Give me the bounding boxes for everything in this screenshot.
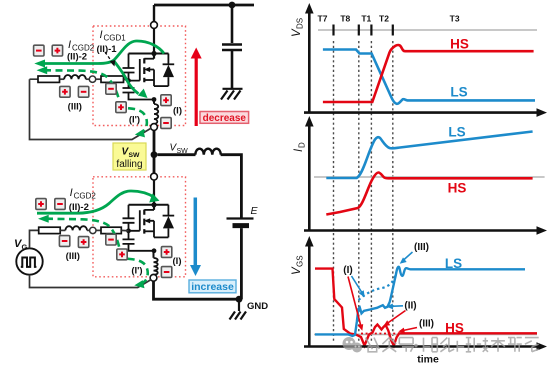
svg-text:SW: SW <box>177 148 189 155</box>
dotted box around low-side switch <box>93 177 186 277</box>
source VG squarewave glyph <box>21 258 37 267</box>
svg-text:GS: GS <box>296 255 305 267</box>
node LS gate mid (open) <box>90 227 96 233</box>
svg-text:CGD1: CGD1 <box>104 34 127 43</box>
polarity box minus LS I <box>161 267 171 278</box>
callout VSW falling (yellow) <box>113 143 146 170</box>
svg-text:(I): (I) <box>173 106 182 117</box>
current path ICGD2 (II)-2 solid green LS <box>37 191 155 213</box>
callout decrease <box>200 112 249 124</box>
capacitor CGD1 branch wire <box>128 54 130 68</box>
annotation (I) red arrow <box>348 277 361 327</box>
current path dashed green HS loop <box>44 70 147 133</box>
chart3 curve HS red <box>315 269 537 346</box>
diode D1 wires <box>167 54 169 87</box>
transistor Q2 channel <box>143 210 145 234</box>
inductor Lg2 <box>65 226 87 230</box>
svg-text:(II): (II) <box>404 301 416 312</box>
wire CGS1 return <box>129 93 155 100</box>
callout increase <box>189 280 236 293</box>
transistor Q1 source lead <box>144 79 154 81</box>
svg-text:(I'): (I') <box>129 115 140 126</box>
chart2 x axis <box>304 229 539 232</box>
svg-text:(II)-2: (II)-2 <box>67 52 87 63</box>
chart1 curve LS blue <box>323 50 535 104</box>
svg-text:T8: T8 <box>340 14 350 24</box>
diode D1 triangle <box>163 65 174 77</box>
capacitor CGS1 <box>123 88 135 93</box>
polarity box plus HS gate <box>116 102 126 113</box>
wire HS gate loop left <box>30 79 152 139</box>
capacitor DC-link wire lower <box>231 51 234 88</box>
wire rail below Q2 <box>153 251 155 258</box>
svg-text:(II)-2: (II)-2 <box>69 202 89 213</box>
transistor Q2 body arrow <box>144 218 150 223</box>
node Q1 drain junction <box>151 51 156 56</box>
inductor Ls2 (LS source parasitic) <box>154 258 158 275</box>
diode D2 cathode bar <box>163 215 175 217</box>
ground (main) <box>230 299 247 319</box>
svg-text:(II)-1: (II)-1 <box>97 44 118 55</box>
chart1 tick marks <box>334 25 393 36</box>
timing dashed gridlines T boundaries <box>333 41 335 343</box>
polarity box plus HS top <box>52 45 62 56</box>
svg-text:G: G <box>22 243 28 252</box>
polarity box minus HS top <box>34 45 44 56</box>
svg-text:I: I <box>100 29 103 41</box>
current arrowhead into source <box>138 89 148 98</box>
transistor Q1 gate bar <box>129 59 140 81</box>
svg-text:(III): (III) <box>419 319 434 330</box>
wire <box>60 229 65 231</box>
capacitor CGD2 <box>123 218 135 223</box>
current arrow (II)-2 HS solid head <box>34 60 45 68</box>
chart2 ID reference gray line <box>314 176 545 178</box>
leader dashed to ICGD1 <box>105 52 112 62</box>
wire <box>60 78 65 80</box>
svg-text:(I): (I) <box>343 265 352 276</box>
wire rail to LS top bar <box>153 180 155 210</box>
battery E plate short <box>233 223 250 228</box>
source VG <box>16 248 42 274</box>
wire HS drain rail <box>153 5 155 22</box>
MOSFET Q2 (low side) top bar <box>129 204 169 206</box>
wire load to battery <box>221 155 242 218</box>
transistor Q1 channel <box>143 58 145 82</box>
diode D1 cathode bar <box>163 63 175 65</box>
node HS gate mid (open) <box>89 76 95 82</box>
wire rail below Q1 <box>153 100 155 104</box>
svg-text:DS: DS <box>296 18 305 29</box>
chart1 x axis <box>304 111 539 114</box>
svg-text:E: E <box>251 205 259 217</box>
polarity box minus HS III <box>78 86 88 97</box>
resistor Rg1b <box>101 76 124 82</box>
wire to Q2 gate <box>121 229 128 231</box>
annotation (II) blue arrow <box>391 305 403 308</box>
current arrow dashed LS left head <box>38 215 49 223</box>
wire battery to gnd bus <box>240 228 243 299</box>
svg-text:HS: HS <box>445 321 464 336</box>
current arrow dashed HS end head <box>135 129 145 137</box>
svg-text:falling: falling <box>116 159 142 170</box>
svg-text:decrease: decrease <box>203 113 247 124</box>
chart2 curve LS blue <box>326 132 532 179</box>
svg-text:GND: GND <box>247 301 268 312</box>
polarity box minus LS III <box>59 236 69 247</box>
wire ground bus <box>154 281 240 299</box>
diode D2 wires <box>167 205 169 238</box>
svg-text:increase: increase <box>191 281 234 293</box>
node LS drain (open) <box>151 173 158 180</box>
polarity box plus LS III <box>78 237 88 248</box>
svg-text:I: I <box>70 187 73 199</box>
chart3 y axis <box>308 244 311 347</box>
label VDS <box>291 18 305 37</box>
watermark logo <box>343 337 363 353</box>
annotation (III) top blue arrow <box>403 252 413 261</box>
watermark text (vector glyphs) <box>366 338 539 352</box>
transistor Q2 source lead <box>144 230 154 232</box>
polarity box minus HS gate <box>106 83 116 94</box>
dotted box around high-side switch <box>93 26 186 126</box>
polarity box minus LS gate <box>106 234 116 245</box>
chart1 VDS reference gray line <box>318 29 537 31</box>
polarity box plus HS I <box>161 95 171 106</box>
wire to Q1 gate <box>124 79 129 80</box>
inductor load <box>195 149 221 155</box>
chart3 curve LS blue <box>315 267 525 336</box>
diode D2 triangle <box>163 216 174 228</box>
svg-text:LS: LS <box>448 125 465 140</box>
svg-text:I: I <box>68 39 71 51</box>
current branch to CGS1 solid green <box>114 61 139 94</box>
arrow increase (blue down) <box>194 198 198 267</box>
transistor Q2 gate bar <box>129 210 140 231</box>
current arrow dashed HS left head <box>37 66 48 74</box>
transistor Q1 body arrow <box>144 67 150 72</box>
chart2 curve HS red <box>326 172 532 214</box>
svg-text:(I): (I) <box>173 256 182 267</box>
node Q1 gate <box>126 78 131 83</box>
current path ICGD1 (II)-1 solid green HS <box>42 41 164 64</box>
chart1 y axis <box>308 11 311 113</box>
wire rail to HS top bar <box>153 28 155 58</box>
svg-text:time: time <box>417 354 439 366</box>
polarity box minus LS top <box>55 199 65 210</box>
chart3 x axis <box>304 345 539 348</box>
wire CGD1 to gate node <box>128 73 130 88</box>
capacitor DC-link <box>222 45 242 51</box>
ground (DC-link) <box>221 89 243 100</box>
wire VSW rail <box>153 130 156 173</box>
svg-text:HS: HS <box>448 181 467 196</box>
capacitor CGD1 <box>123 68 135 73</box>
wire <box>96 78 101 80</box>
transistor Q2 body lead <box>146 221 154 238</box>
node HS drain (open) <box>151 22 158 29</box>
svg-text:(III): (III) <box>414 242 429 253</box>
wire CGD2 to gate node <box>128 223 130 239</box>
chart1 curve HS red <box>323 45 534 102</box>
battery E plate long <box>227 217 254 219</box>
node VSW upper (open) <box>151 124 158 131</box>
inductor Ls1 (HS source parasitic) <box>154 104 158 124</box>
node Q2 gate <box>126 228 131 233</box>
annotation (III) bottom red arrow <box>403 328 417 331</box>
current arrow dashed LS end head <box>134 280 144 288</box>
inductor Lg1 <box>64 75 86 79</box>
transistor Q2 drain lead <box>144 209 154 211</box>
svg-text:LS: LS <box>445 256 462 271</box>
label VGS <box>291 255 305 275</box>
node junction top bus <box>229 2 236 9</box>
wire <box>96 229 101 231</box>
svg-text:(I'): (I') <box>131 266 142 277</box>
polarity box plus LS top <box>36 199 46 210</box>
arrow decrease (red up) <box>195 57 198 126</box>
svg-text:CGD2: CGD2 <box>74 192 97 201</box>
current arrow LS solid head <box>149 193 159 202</box>
chart3 blue dotted ideal <box>359 273 397 301</box>
svg-text:T7: T7 <box>318 14 328 24</box>
wire Q1 source bar <box>154 85 168 87</box>
svg-text:D: D <box>298 142 307 148</box>
polarity box plus LS I <box>161 247 171 258</box>
node VSW junction <box>151 151 158 158</box>
wire CGS2 return <box>129 244 155 251</box>
capacitor DC-link wire upper <box>231 5 234 43</box>
current path dashed green LS loop <box>46 219 148 284</box>
node Q2 source junction <box>152 248 157 253</box>
svg-text:T1: T1 <box>361 14 371 24</box>
capacitor CGS2 <box>123 239 135 244</box>
annotation (I) blue arrow <box>352 276 363 294</box>
svg-text:T2: T2 <box>379 14 389 24</box>
chart3 red dotted ideal <box>361 333 399 335</box>
svg-text:T3: T3 <box>450 14 460 24</box>
node ground junction <box>236 296 243 303</box>
wire top bus <box>154 4 254 7</box>
wire VSW to load <box>157 153 195 156</box>
transistor Q1 drain lead <box>144 58 154 60</box>
svg-text:(III): (III) <box>68 102 82 113</box>
svg-text:(III): (III) <box>66 251 80 262</box>
wire <box>86 78 90 80</box>
node Q1 source junction <box>152 97 157 102</box>
svg-text:LS: LS <box>450 85 467 100</box>
capacitor CGD2 branch wire <box>128 205 130 218</box>
MOSFET Q1 (high side) top bar <box>129 53 169 55</box>
label ID <box>293 142 307 152</box>
wire LS gate loop <box>30 230 152 287</box>
wire <box>87 229 90 231</box>
svg-text:HS: HS <box>450 37 469 52</box>
chart2 y axis <box>308 124 311 231</box>
resistor Rg2b <box>101 227 121 233</box>
annotation (II) red arrow <box>387 311 406 324</box>
resistor Rg2a <box>39 227 61 233</box>
node LS source (open) <box>150 274 157 281</box>
chart3 VGS reference gray line <box>314 333 537 335</box>
polarity box plus LS gate <box>117 249 127 260</box>
polarity box plus HS III <box>60 86 70 97</box>
resistor Rg1a <box>38 76 60 82</box>
wire Q2 source bar <box>154 236 168 238</box>
node Q2 drain junction <box>151 202 156 207</box>
wire to LS source node <box>153 273 155 276</box>
polarity box minus HS I <box>161 118 171 129</box>
transistor Q1 body lead <box>146 70 154 87</box>
